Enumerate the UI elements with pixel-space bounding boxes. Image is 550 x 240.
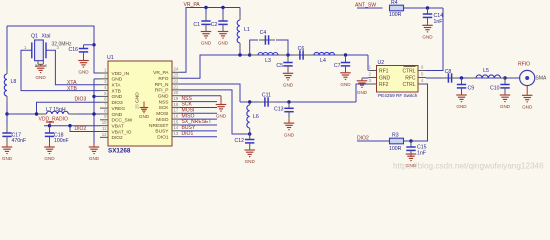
svg-text:Q1: Q1	[31, 34, 38, 40]
svg-text:RF1: RF1	[379, 68, 389, 74]
svg-text:VBAT_IO: VBAT_IO	[112, 129, 132, 135]
svg-text:U1: U1	[107, 55, 114, 61]
svg-text:C16: C16	[68, 47, 78, 53]
svg-text:C2: C2	[211, 22, 218, 28]
svg-text:MOSI: MOSI	[156, 111, 168, 117]
svg-text:GND: GND	[78, 70, 89, 75]
svg-text:SX1268: SX1268	[108, 148, 131, 155]
svg-text:GND: GND	[456, 104, 467, 109]
svg-text:C12: C12	[234, 138, 244, 144]
svg-text:10: 10	[102, 120, 107, 125]
svg-text:C13: C13	[274, 107, 284, 113]
svg-text:XTB: XTB	[67, 86, 77, 92]
svg-text:MISO: MISO	[156, 117, 169, 123]
svg-text:18: 18	[174, 102, 179, 107]
svg-text:R4: R4	[391, 0, 398, 6]
svg-text:SMA: SMA	[536, 76, 548, 82]
svg-text:C10: C10	[490, 86, 500, 92]
svg-text:GND: GND	[35, 75, 46, 80]
svg-text:GND: GND	[422, 35, 433, 40]
svg-text:32.0MHz: 32.0MHz	[52, 42, 73, 48]
svg-text:11: 11	[102, 126, 107, 131]
svg-text:GND: GND	[2, 156, 13, 161]
svg-text:24: 24	[174, 67, 179, 72]
svg-text:1nF: 1nF	[434, 19, 443, 25]
svg-text:C1: C1	[193, 22, 200, 28]
svg-text:CTRL: CTRL	[402, 68, 415, 74]
svg-text:U2: U2	[378, 60, 385, 66]
svg-text:100R: 100R	[389, 146, 402, 152]
svg-text:C9: C9	[468, 86, 475, 92]
svg-text:GND: GND	[158, 94, 169, 100]
svg-text:15: 15	[174, 119, 179, 124]
svg-text:GND: GND	[522, 105, 533, 110]
svg-text:470nF: 470nF	[12, 138, 27, 144]
svg-text:L4: L4	[320, 58, 326, 64]
svg-text:DIO2: DIO2	[112, 135, 124, 141]
svg-text:NSS: NSS	[159, 99, 169, 105]
svg-text:GND: GND	[112, 77, 123, 83]
svg-text:C6: C6	[298, 46, 305, 52]
svg-text:RF2: RF2	[379, 82, 389, 88]
svg-text:https://blog.csdn.net/qingwufe: https://blog.csdn.net/qingwufeiyang12346	[393, 162, 544, 171]
svg-text:RFC: RFC	[405, 75, 416, 81]
svg-text:GND: GND	[283, 83, 294, 88]
svg-text:RFI_P: RFI_P	[155, 88, 169, 94]
svg-text:XTA: XTA	[112, 83, 122, 89]
svg-text:GND: GND	[44, 156, 55, 161]
svg-text:GND: GND	[89, 156, 100, 161]
svg-text:GND: GND	[216, 114, 227, 119]
svg-text:BUSY: BUSY	[155, 129, 169, 135]
svg-text:GND: GND	[201, 41, 212, 46]
svg-text:SCK: SCK	[159, 105, 170, 111]
svg-text:13: 13	[174, 131, 179, 136]
svg-text:GND: GND	[218, 41, 229, 46]
svg-text:14: 14	[174, 125, 179, 130]
svg-text:L7 15nH: L7 15nH	[46, 107, 66, 113]
svg-text:L6: L6	[253, 114, 259, 120]
svg-text:C11: C11	[262, 93, 271, 99]
svg-text:L1: L1	[244, 27, 250, 33]
svg-text:DIO1: DIO1	[157, 134, 169, 140]
svg-text:16: 16	[174, 114, 179, 119]
svg-text:20: 20	[174, 90, 179, 95]
svg-text:GND: GND	[112, 112, 123, 118]
svg-text:DIO3: DIO3	[112, 100, 124, 106]
svg-text:17: 17	[174, 108, 179, 113]
svg-text:100R: 100R	[389, 12, 402, 18]
svg-text:12: 12	[102, 132, 107, 137]
svg-text:VREG: VREG	[112, 106, 126, 112]
svg-text:GND: GND	[340, 82, 351, 87]
svg-text:PE4259 RF Switch: PE4259 RF Switch	[378, 93, 418, 98]
svg-text:VDD_IN: VDD_IN	[112, 71, 130, 77]
svg-text:NRESET: NRESET	[149, 123, 169, 129]
svg-text:Xtal: Xtal	[42, 34, 51, 40]
svg-text:XTB: XTB	[112, 88, 121, 94]
svg-text:100nF: 100nF	[54, 138, 69, 144]
svg-text:DIO2: DIO2	[75, 126, 87, 132]
svg-text:RFO: RFO	[158, 76, 168, 82]
svg-text:C7: C7	[334, 63, 341, 69]
svg-text:VR_PA: VR_PA	[153, 70, 169, 76]
svg-text:GND: GND	[357, 90, 368, 95]
svg-text:L8: L8	[11, 79, 17, 85]
svg-text:1nF: 1nF	[417, 151, 426, 157]
svg-text:DIO3: DIO3	[75, 96, 87, 102]
svg-text:21: 21	[174, 84, 179, 89]
svg-text:RFIO: RFIO	[518, 61, 530, 67]
svg-text:C8: C8	[445, 69, 452, 75]
svg-text:L3: L3	[265, 58, 271, 64]
svg-text:22: 22	[174, 78, 179, 83]
svg-text:R3: R3	[392, 132, 399, 138]
svg-text:C4: C4	[260, 30, 267, 36]
svg-text:23: 23	[174, 73, 179, 78]
svg-text:GND: GND	[112, 94, 123, 100]
svg-text:GND: GND	[500, 104, 511, 109]
svg-text:VR_PA: VR_PA	[184, 2, 201, 8]
svg-text:C5: C5	[276, 63, 283, 69]
svg-text:GND: GND	[245, 159, 256, 164]
svg-text:VBAT: VBAT	[112, 123, 124, 129]
svg-text:25: 25	[135, 104, 140, 109]
svg-text:GND: GND	[135, 92, 141, 103]
svg-text:GND: GND	[139, 114, 150, 119]
svg-text:GND: GND	[379, 75, 391, 81]
svg-text:DCC_SW: DCC_SW	[112, 118, 133, 124]
svg-text:L5: L5	[483, 68, 489, 74]
svg-text:RFI_N: RFI_N	[155, 82, 169, 88]
svg-text:CTRL: CTRL	[402, 82, 415, 88]
svg-text:19: 19	[174, 96, 179, 101]
svg-text:DIO1: DIO1	[182, 131, 194, 137]
svg-text:GND: GND	[284, 132, 295, 137]
